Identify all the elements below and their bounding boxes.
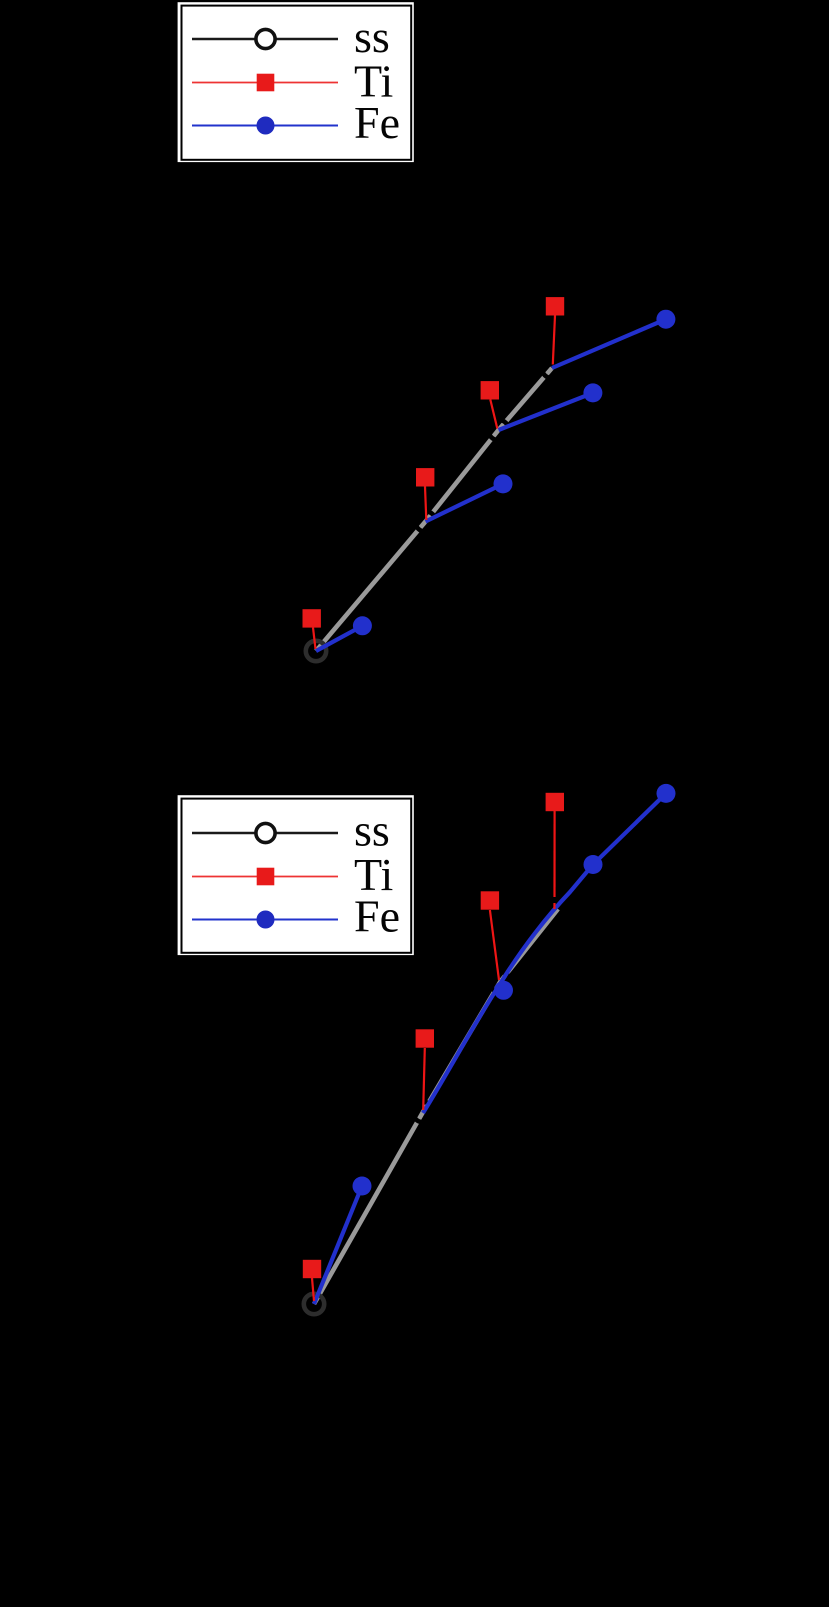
plot 2 Ti stub E (490, 910, 499, 980)
plot 2 ss gray line (314, 909, 558, 1304)
plot 2 Fe circle M (584, 855, 603, 874)
plot 1 Fe circle 2 (494, 474, 513, 493)
legend 1 Fe text (354, 97, 400, 148)
legend 2 ss text (354, 805, 390, 856)
legend 2 Ti line (192, 876, 338, 878)
plot 2 Ti square F (546, 793, 564, 811)
legend 2 ss ring (256, 823, 275, 842)
plot 1 Fe segment 1 (316, 626, 362, 651)
plot 1 Fe segment 3 (499, 393, 593, 430)
plot 1 Fe circle 1 (353, 616, 372, 635)
plot 2 Fe polyline C-D-M-T (423, 793, 666, 1113)
plot 1 ss ring marker origin (306, 641, 326, 661)
plot 2 Ti stub F lower (553, 903, 555, 909)
legend 1 Fe line (192, 125, 338, 127)
plot 1 ss ring marker node 2 (415, 511, 435, 531)
plot 1 Ti stub 2 (425, 487, 426, 521)
legend 2 Fe text (354, 891, 400, 942)
plot 1 Ti stub 3 (490, 400, 497, 429)
legend 1 ss line (192, 38, 338, 41)
plot 1 ss ring marker node 3 (488, 420, 508, 440)
plot 2 Fe circle B (353, 1177, 372, 1196)
plot 2 ss ring marker origin (304, 1294, 324, 1314)
plot 1 Ti square 1 (303, 609, 321, 627)
plot 2 Fe segment origin-B (314, 1186, 362, 1304)
legend 1 Fe circle (257, 117, 275, 135)
legend 1 ss text (354, 11, 390, 62)
plot 2 Ti square E (481, 891, 499, 909)
plot 1 Fe circle 3 (583, 383, 602, 402)
plot 2 Ti stub A (312, 1278, 314, 1301)
plot 1 Ti square 3 (481, 381, 499, 399)
svg-text:Fe: Fe (354, 97, 400, 148)
legend 1 ss ring (256, 29, 275, 48)
plot 2 ss ring marker node D (490, 972, 510, 992)
plot 2 Ti square C (416, 1029, 434, 1047)
legend 1 Ti square (257, 74, 275, 92)
plot 2 ss ring marker node C (413, 1102, 433, 1122)
legend 1 box (176, 1, 415, 163)
plot 1 Fe segment 4 (552, 319, 666, 368)
plot 2 Ti stub F upper (553, 811, 555, 897)
legend 2 Fe line (192, 919, 338, 921)
legend 2 Ti text (354, 849, 393, 900)
legend 2 box (176, 794, 415, 956)
legend 1 Ti line (192, 82, 338, 84)
plot 1 Fe circle 4 (656, 310, 675, 329)
plot 1 Ti square 2 (416, 468, 434, 486)
plot 1 ss ring marker node 4 (542, 358, 562, 378)
legend 2 Ti square (257, 868, 275, 886)
svg-text:Fe: Fe (354, 891, 400, 942)
plot 1 ss gray line (316, 368, 552, 651)
plot 1 Fe segment 2 (426, 484, 504, 522)
plot 1 Ti square 4 (546, 297, 564, 315)
legend 2 ss line (192, 832, 338, 835)
plot 2 Ti stub C (423, 1048, 425, 1110)
plot 2 Ti square A (303, 1260, 321, 1278)
plot 2 Fe circle T (657, 784, 676, 803)
plot 2 Fe circle D (494, 981, 513, 1000)
legend 1 Ti text (354, 55, 393, 106)
plot 1 Ti stub 4 (553, 316, 555, 365)
legend 2 Fe circle (257, 911, 275, 929)
plot 1 Ti stub 1 (313, 628, 316, 650)
